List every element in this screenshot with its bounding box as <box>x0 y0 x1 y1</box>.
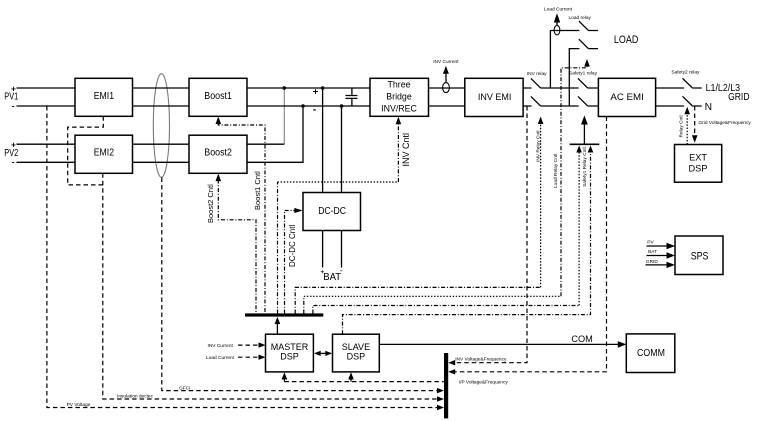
svg-text:COMM: COMM <box>637 348 665 359</box>
svg-text:SPS: SPS <box>691 250 709 262</box>
svg-text:Load Relay Cntl: Load Relay Cntl <box>553 154 559 188</box>
svg-text:BAT: BAT <box>323 272 341 283</box>
svg-text:INV Current: INV Current <box>433 59 459 65</box>
svg-text:DSP: DSP <box>347 352 366 362</box>
svg-text:Insulation dectec: Insulation dectec <box>117 393 154 399</box>
svg-text:Load Current: Load Current <box>206 355 235 361</box>
svg-text:GFCI: GFCI <box>179 386 190 392</box>
svg-text:Load relay: Load relay <box>569 15 592 21</box>
svg-text:COM: COM <box>571 334 592 344</box>
svg-text:Load Current: Load Current <box>544 7 573 13</box>
svg-text:AC EMI: AC EMI <box>610 91 643 102</box>
svg-text:INV Cntl: INV Cntl <box>401 133 411 167</box>
svg-text:Safety2 relay: Safety2 relay <box>671 69 700 75</box>
svg-text:GRID: GRID <box>646 259 659 265</box>
svg-text:Boost2 Cntl: Boost2 Cntl <box>206 184 215 223</box>
svg-text:DC-DC: DC-DC <box>318 206 346 217</box>
svg-text:EMI2: EMI2 <box>94 148 115 159</box>
svg-text:PV: PV <box>647 240 654 246</box>
svg-text:DSP: DSP <box>280 352 299 362</box>
svg-text:Grid Voltage&Frequency: Grid Voltage&Frequency <box>699 120 752 126</box>
svg-text:LOAD: LOAD <box>614 34 638 46</box>
svg-text:PV Voltage: PV Voltage <box>67 402 91 408</box>
svg-text:DC-DC Cntl: DC-DC Cntl <box>288 225 297 267</box>
svg-text:EMI1: EMI1 <box>94 91 115 102</box>
svg-text:INV EMI: INV EMI <box>478 92 512 102</box>
svg-text:+: + <box>320 267 325 276</box>
svg-text:I/P Voltage&Frequency: I/P Voltage&Frequency <box>459 380 509 386</box>
svg-text:N: N <box>705 102 712 113</box>
svg-text:INV/REC: INV/REC <box>381 104 417 114</box>
svg-text:Boost1 Cntl: Boost1 Cntl <box>253 171 262 210</box>
svg-text:INV Current: INV Current <box>208 343 234 349</box>
svg-text:Boost2: Boost2 <box>204 148 232 159</box>
svg-text:-: - <box>313 105 316 116</box>
svg-text:Safety1 Relay Cntl: Safety1 Relay Cntl <box>582 147 588 187</box>
svg-text:INV Voltage&Frequency: INV Voltage&Frequency <box>455 357 507 363</box>
svg-text:Bridge: Bridge <box>386 92 412 102</box>
svg-text:-: - <box>12 100 15 110</box>
svg-text:MASTER: MASTER <box>271 342 309 352</box>
svg-text:BAT: BAT <box>648 249 657 255</box>
svg-text:GRID: GRID <box>728 92 749 103</box>
svg-text:-: - <box>12 157 15 167</box>
svg-text:Safety1 relay: Safety1 relay <box>569 71 598 77</box>
svg-text:Boost1: Boost1 <box>204 91 232 102</box>
svg-text:+: + <box>11 140 16 150</box>
svg-text:INV Relay Cntl: INV Relay Cntl <box>536 131 542 162</box>
svg-text:+: + <box>11 83 16 93</box>
svg-text:DSP: DSP <box>689 164 708 174</box>
svg-text:+: + <box>313 86 319 97</box>
svg-text:INV relay: INV relay <box>527 71 547 77</box>
svg-text:-: - <box>340 265 343 275</box>
svg-text:Relay Cntl: Relay Cntl <box>679 115 685 137</box>
svg-text:Three: Three <box>388 80 411 90</box>
svg-text:SLAVE: SLAVE <box>342 342 370 352</box>
svg-text:EXT: EXT <box>689 152 707 162</box>
